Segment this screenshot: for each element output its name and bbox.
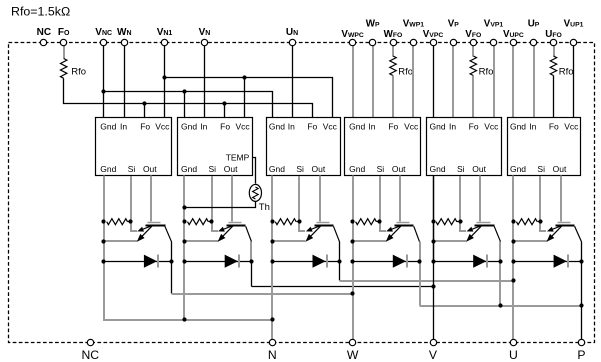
gate bar of Q1 (W low-side): [148, 222, 161, 224]
svg-text:WN: WN: [117, 27, 132, 38]
terminal VVPC: [423, 29, 444, 46]
wire driver U6 Si vertical: [539, 176, 541, 222]
svg-text:UP: UP: [528, 19, 540, 30]
collector lead of Q1 (W low-side): [165, 226, 172, 241]
wire VWP1 vertical to driver Vcc pin: [412, 46, 414, 118]
svg-text:VVP1: VVP1: [484, 19, 504, 30]
terminal WN: [117, 27, 132, 46]
svg-text:V: V: [429, 348, 438, 362]
gate bar of Q5 (V high-side): [477, 222, 491, 224]
svg-text:Fo: Fo: [140, 122, 150, 132]
wire driver U2 Si vertical: [211, 176, 213, 222]
terminal N (power): [268, 339, 277, 362]
wire Si sense lead: [299, 222, 305, 231]
resistor Rfo (N-side fault pull-up): [61, 59, 67, 79]
terminal VUP1: [564, 19, 584, 46]
wire UP vertical to driver In pin: [533, 46, 535, 118]
wire Q2 collector to V bus: [251, 262, 253, 287]
svg-text:Rfo=1.5kΩ: Rfo=1.5kΩ: [11, 5, 70, 19]
resistor R1 (gate resistor): [107, 219, 128, 225]
wire Si sense lead: [540, 222, 546, 231]
wire Q3 collector to U bus: [339, 262, 341, 281]
terminal UFO: [545, 29, 562, 46]
svg-text:Gnd: Gnd: [349, 122, 365, 132]
terminal VNC: [95, 27, 112, 46]
wire stub bus to U2 Fo pin: [224, 104, 226, 118]
wire driver U6 Gnd/emitter vertical: [512, 176, 514, 262]
diode row / freewheel net of cell 2: [185, 261, 252, 263]
svg-text:U: U: [509, 348, 518, 362]
svg-text:Vcc: Vcc: [564, 122, 579, 132]
driver IC U6: [508, 118, 581, 176]
wire V output bus: [252, 286, 434, 288]
terminal WP: [366, 19, 380, 46]
wire VUP1 vertical to driver Vcc pin: [573, 46, 575, 118]
svg-text:Gnd: Gnd: [349, 164, 365, 174]
svg-text:VN: VN: [199, 27, 211, 38]
wire VVPC line through cell to V terminal: [433, 176, 435, 343]
svg-text:In: In: [529, 122, 536, 132]
collector lead of Q5 (V high-side): [494, 226, 500, 241]
resistor R5 (gate resistor): [436, 219, 457, 225]
svg-text:UN: UN: [286, 27, 298, 38]
gate bar of Q6 (U high-side): [558, 222, 571, 224]
svg-text:Gnd: Gnd: [510, 164, 526, 174]
wire driver U2 Gnd/emitter vertical: [183, 176, 185, 262]
wire VFO terminal stub: [472, 46, 474, 57]
wire N emitter bus: [104, 261, 272, 320]
terminal VN: [199, 27, 211, 46]
svg-text:UFO: UFO: [545, 29, 562, 40]
wire Q1 collector to W bus: [171, 262, 173, 294]
wire driver U4 Gnd/emitter vertical: [352, 176, 354, 262]
emitter arrow of Q5 (V high-side): [470, 226, 482, 238]
terminal NC (power): [81, 339, 99, 362]
diode D6 cathode bar: [567, 255, 569, 268]
wire Q2 emitter to N bus: [183, 262, 185, 320]
wire driver U4 Out to gate of Q4 (W high-side): [399, 176, 401, 222]
wire Q5 collector to P bus: [499, 262, 501, 306]
svg-text:VVPC: VVPC: [423, 29, 444, 40]
svg-text:VN1: VN1: [157, 27, 173, 38]
svg-text:VFO: VFO: [465, 29, 481, 40]
svg-text:WP: WP: [366, 19, 380, 30]
resistor R2 (gate resistor): [188, 219, 209, 225]
diode D4 (freewheel): [393, 255, 406, 268]
svg-text:Rfo: Rfo: [398, 66, 413, 77]
svg-text:Out: Out: [553, 164, 567, 174]
svg-text:Out: Out: [392, 164, 406, 174]
wire W output bus: [172, 293, 353, 295]
wire VWPC line through cell to W terminal: [352, 176, 354, 343]
wire Q6 collector / P terminal line: [581, 262, 583, 343]
svg-text:Vcc: Vcc: [155, 122, 170, 132]
svg-text:FO: FO: [58, 27, 70, 38]
wire UFO terminal stub: [553, 46, 555, 57]
junction dots (all wire junctions): [101, 75, 583, 321]
wire emitter of Q6 (U high-side) to Gnd node: [514, 240, 548, 242]
svg-text:Si: Si: [209, 164, 217, 174]
wire driver U3 Gnd/emitter vertical: [271, 176, 273, 262]
terminal W (power): [347, 339, 359, 362]
wire emitter of Q5 (V high-side) to Gnd node: [434, 240, 467, 242]
wire driver U5 Si vertical: [459, 176, 461, 222]
emitter arrow of Q6 (U high-side): [550, 226, 562, 238]
svg-text:Gnd: Gnd: [269, 164, 285, 174]
terminal VVP1: [484, 19, 504, 46]
wire VNC vertical to U1 Gnd pin: [103, 46, 105, 118]
sense arrow into Q5 (V high-side): [470, 226, 481, 230]
sense arrow into Q4 (W high-side): [390, 226, 401, 230]
wire VVPC vertical to driver Gnd pin: [433, 46, 435, 118]
wire WFO resistor to driver Fo pin: [392, 76, 394, 118]
diode D3 (freewheel): [313, 255, 326, 268]
svg-text:In: In: [120, 122, 127, 132]
diode row / freewheel net of cell 1: [104, 261, 172, 263]
svg-text:Out: Out: [224, 164, 238, 174]
svg-text:VUPC: VUPC: [503, 29, 524, 40]
resistor Rfo (WFO fault pull-up): [390, 56, 396, 76]
svg-text:Vcc: Vcc: [484, 122, 499, 132]
svg-text:Gnd: Gnd: [181, 122, 197, 132]
terminal VUPC: [503, 29, 524, 46]
wire Si sense lead: [212, 222, 218, 231]
wire Fo net: resistor to Fo bus: [64, 79, 313, 118]
diode row / freewheel net of cell 4: [353, 261, 420, 263]
wire emitter of Q4 (W high-side) to Gnd node: [353, 240, 387, 242]
wire Q3 emitter / N terminal line: [271, 262, 273, 343]
terminal UP: [528, 19, 540, 46]
collector lead of Q3 (U low-side): [334, 226, 340, 241]
svg-text:Fo: Fo: [307, 122, 317, 132]
diode D1 cathode bar: [157, 255, 159, 268]
wire driver U3 Si vertical: [298, 176, 300, 222]
wire emitter of Q2 (V low-side) to Gnd node: [185, 240, 219, 242]
resistor Rfo (VFO fault pull-up): [470, 56, 476, 76]
terminal VFO: [465, 29, 481, 46]
diode row / freewheel net of cell 6: [514, 261, 582, 263]
svg-text:Out: Out: [312, 164, 326, 174]
svg-text:Fo: Fo: [220, 122, 230, 132]
svg-text:In: In: [449, 122, 456, 132]
wire driver U3 Out to gate of Q3 (U low-side): [319, 176, 321, 222]
body bar of Q3 (U low-side): [315, 225, 334, 227]
wire U output bus: [340, 280, 514, 282]
svg-text:Gnd: Gnd: [269, 122, 285, 132]
wire Fo terminal stub: [63, 46, 65, 59]
driver IC U1: [96, 118, 172, 176]
wire driver U1 Out to gate of Q1 (W low-side): [150, 176, 152, 222]
svg-text:Fo: Fo: [469, 122, 479, 132]
wire VNC Gnd bus to U2/U3 Gnd pins: [104, 92, 273, 118]
wire VUPC vertical to driver Gnd pin: [512, 46, 514, 118]
resistor R6 (gate resistor): [516, 219, 537, 225]
resistor R3 (gate resistor): [275, 219, 296, 225]
wire emitter of Q1 (W low-side) to Gnd node: [104, 240, 138, 242]
wire emitter of Q3 (U low-side) to Gnd node: [273, 240, 306, 242]
gate bar of Q2 (V low-side): [229, 222, 242, 224]
body bar of Q4 (W high-side): [395, 225, 414, 227]
wire VVP1 vertical to driver Vcc pin: [493, 46, 495, 118]
terminal FO: [58, 27, 70, 46]
terminal VWPC: [341, 29, 363, 46]
svg-text:VWPC: VWPC: [341, 29, 363, 40]
svg-text:Si: Si: [537, 164, 545, 174]
terminal P (power): [577, 339, 585, 362]
wire Si sense lead: [380, 222, 386, 231]
svg-text:Fo: Fo: [388, 122, 398, 132]
wire UN vertical to U3 In pin: [292, 46, 294, 118]
driver IC U5: [427, 118, 502, 176]
svg-text:Rfo: Rfo: [559, 66, 574, 77]
diode D6 (freewheel): [554, 255, 567, 268]
svg-text:Vcc: Vcc: [323, 122, 338, 132]
svg-text:Gnd: Gnd: [100, 164, 116, 174]
wire WP vertical to driver In pin: [372, 46, 374, 118]
wire Si sense lead: [131, 222, 137, 231]
svg-text:VP: VP: [448, 19, 460, 30]
diode D4 cathode bar: [406, 255, 408, 268]
driver IC U4: [345, 118, 421, 176]
diode D3 cathode bar: [326, 255, 328, 268]
wire stub bus to U2 Vcc pin: [244, 78, 246, 118]
wire P rail bus: [420, 305, 582, 307]
wire driver U5 Gnd/emitter vertical: [433, 176, 435, 262]
svg-text:Gnd: Gnd: [100, 122, 116, 132]
terminal NC: [37, 27, 51, 46]
wire driver U4 Si vertical: [379, 176, 381, 222]
diode D5 cathode bar: [486, 255, 488, 268]
wire driver U5 Out to gate of Q5 (V high-side): [479, 176, 481, 222]
svg-text:Si: Si: [377, 164, 385, 174]
svg-text:Th: Th: [259, 202, 270, 213]
wire driver U2 Out to gate of Q2 (V low-side): [231, 176, 233, 222]
terminal UN: [286, 27, 298, 46]
svg-text:Rfo: Rfo: [479, 66, 494, 77]
svg-text:Out: Out: [472, 164, 486, 174]
svg-text:NC: NC: [37, 27, 51, 38]
svg-text:N: N: [268, 348, 277, 362]
driver IC U3: [267, 118, 341, 176]
driver IC U2: [178, 118, 253, 176]
terminal VP: [448, 19, 460, 46]
svg-text:TEMP: TEMP: [226, 152, 250, 162]
terminal WFO: [384, 29, 403, 46]
svg-text:Rfo: Rfo: [71, 67, 86, 78]
terminal U (power): [509, 339, 518, 362]
resistor R4 (gate resistor): [356, 219, 377, 225]
terminal VN1: [157, 27, 173, 46]
wire WFO terminal stub: [392, 46, 394, 57]
svg-text:In: In: [200, 122, 207, 132]
terminal VWP1: [403, 19, 424, 46]
emitter arrow of Q3 (U low-side): [309, 226, 321, 238]
diode D5 (freewheel): [473, 255, 486, 268]
wire thermistor to U2 Gnd node: [185, 202, 256, 208]
svg-text:Si: Si: [457, 164, 465, 174]
svg-text:Si: Si: [296, 164, 304, 174]
svg-text:NC: NC: [81, 348, 99, 362]
wire stub bus to U1 Fo pin: [144, 104, 146, 118]
collector lead of Q4 (W high-side): [414, 226, 420, 241]
wire Si sense lead: [460, 222, 466, 231]
svg-text:Gnd: Gnd: [510, 122, 526, 132]
diode D2 (freewheel): [225, 255, 238, 268]
svg-text:VWP1: VWP1: [403, 19, 424, 30]
wire VUPC line through cell to U terminal: [512, 176, 514, 343]
diode D1 (freewheel): [144, 255, 157, 268]
resistor Rfo (UFO fault pull-up): [550, 56, 556, 76]
wire UFO resistor to driver Fo pin: [553, 76, 555, 118]
collector lead of Q2 (V low-side): [246, 226, 252, 241]
diode row / freewheel net of cell 5: [434, 261, 501, 263]
body bar of Q5 (V high-side): [475, 225, 495, 227]
terminal V (power): [429, 339, 438, 362]
body bar of Q6 (U high-side): [556, 225, 575, 227]
svg-text:WFO: WFO: [384, 29, 403, 40]
emitter arrow of Q4 (W high-side): [389, 226, 401, 238]
wire TEMP pin stub from U2: [253, 158, 256, 184]
svg-text:VUP1: VUP1: [564, 19, 584, 30]
svg-text:In: In: [368, 122, 375, 132]
svg-text:Si: Si: [128, 164, 136, 174]
svg-text:Gnd: Gnd: [430, 164, 446, 174]
wire VFO resistor to driver Fo pin: [472, 76, 474, 118]
wire driver U6 Out to gate of Q6 (U high-side): [560, 176, 562, 222]
sense arrow into Q1 (W low-side): [141, 226, 152, 230]
thermistor Th: [249, 184, 261, 201]
wire driver U1 Gnd/emitter vertical: [103, 176, 105, 262]
gate bar of Q3 (U low-side): [317, 222, 330, 224]
collector lead of Q6 (U high-side): [575, 226, 582, 241]
diode row / freewheel net of cell 3: [273, 261, 340, 263]
svg-text:Gnd: Gnd: [430, 122, 446, 132]
wire WN vertical to U1 In pin: [124, 46, 126, 118]
svg-text:Vcc: Vcc: [404, 122, 419, 132]
wire VP vertical to driver In pin: [452, 46, 454, 118]
wire driver U1 Si vertical: [130, 176, 132, 222]
sense arrow into Q3 (U low-side): [309, 226, 320, 230]
wire VWPC vertical to driver Gnd pin: [352, 46, 354, 118]
svg-text:Out: Out: [143, 164, 157, 174]
sense arrow into Q6 (U high-side): [551, 226, 562, 230]
sense arrow into Q2 (V low-side): [222, 226, 233, 230]
wire VN1 Vcc bus to U2/U3 Vcc pins: [165, 78, 333, 118]
wire VN vertical to U2 In pin: [204, 46, 206, 118]
wire Q4 collector to P bus: [419, 262, 421, 306]
body bar of Q2 (V low-side): [227, 225, 246, 227]
svg-text:Gnd: Gnd: [181, 164, 197, 174]
svg-text:VNC: VNC: [95, 27, 112, 38]
body bar of Q1 (W low-side): [146, 225, 166, 227]
wire stub bus to U2 Gnd pin: [184, 92, 186, 118]
svg-text:P: P: [577, 348, 585, 362]
wire VN1 vertical to U1 Vcc pin: [164, 46, 166, 118]
svg-text:Fo: Fo: [549, 122, 559, 132]
svg-text:W: W: [347, 348, 359, 362]
emitter arrow of Q2 (V low-side): [221, 226, 233, 238]
diode D2 cathode bar: [238, 255, 240, 268]
svg-text:Vcc: Vcc: [236, 122, 251, 132]
emitter arrow of Q1 (W low-side): [140, 226, 152, 238]
gate bar of Q4 (W high-side): [397, 222, 410, 224]
svg-text:In: In: [288, 122, 295, 132]
